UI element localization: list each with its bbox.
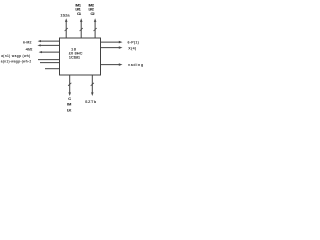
wire left pin 2 <box>37 44 59 46</box>
svg-text:1C1B1: 1C1B1 <box>69 54 81 59</box>
wire top pin 3 <box>94 18 97 38</box>
wire right pin 3 <box>101 63 123 66</box>
svg-text:X(4): X(4) <box>128 46 137 50</box>
wire left pin 1 <box>38 40 60 42</box>
wire bottom pin 2 <box>91 75 94 96</box>
wire left pin 4 <box>38 59 60 61</box>
node IM1 LK1 C1 <box>75 4 81 17</box>
svg-text:+6V2: +6V2 <box>25 47 32 51</box>
svg-text:C2: C2 <box>91 12 95 16</box>
svg-text:vading: vading <box>128 63 143 67</box>
svg-text:a(n1)-wagp-(wh-2: a(n1)-wagp-(wh-2 <box>1 60 32 64</box>
wire bottom pin 1 <box>68 75 71 96</box>
svg-text:SZTb: SZTb <box>85 100 97 104</box>
node C IM LK <box>67 97 72 113</box>
svg-text:1S2a: 1S2a <box>60 12 70 17</box>
wire top pin 1 <box>65 18 68 38</box>
wire left pin 6 <box>45 68 60 70</box>
wire left pin 5 <box>40 62 60 64</box>
IC U1 body <box>60 38 101 75</box>
svg-text:6-M2: 6-M2 <box>23 41 32 45</box>
node IM2 LK2 C2 <box>89 4 95 17</box>
wire left pin 3 <box>39 51 60 53</box>
svg-text:LK: LK <box>67 109 72 113</box>
svg-text:C: C <box>68 97 71 101</box>
wire right pin 1 <box>101 41 123 44</box>
svg-text:IM: IM <box>67 103 71 107</box>
svg-text:LK1: LK1 <box>75 7 80 11</box>
wire right pin 2 <box>101 46 123 49</box>
svg-text:6-P(1): 6-P(1) <box>128 40 140 44</box>
svg-text:a(n1) wagp (wh): a(n1) wagp (wh) <box>1 54 30 58</box>
IC U1 part-number label <box>69 47 83 60</box>
svg-text:LK2: LK2 <box>89 7 94 11</box>
wire top pin 2 <box>80 18 83 38</box>
svg-text:C1: C1 <box>77 12 81 16</box>
